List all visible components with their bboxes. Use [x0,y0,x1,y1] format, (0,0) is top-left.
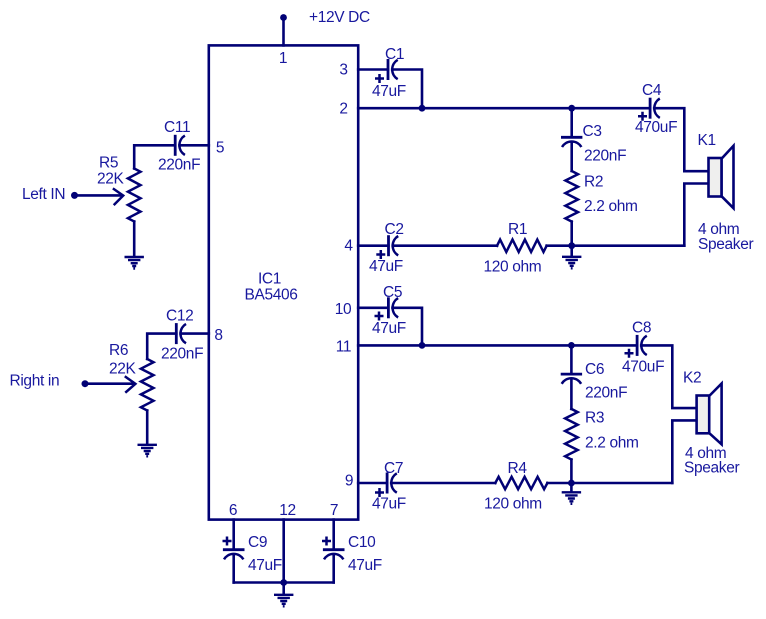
svg-text:11: 11 [336,339,351,356]
svg-text:120 ohm: 120 ohm [484,496,542,513]
svg-text:12: 12 [279,502,296,519]
svg-text:47uF: 47uF [372,320,406,337]
svg-text:IC1: IC1 [258,271,281,288]
svg-text:R5: R5 [99,155,118,172]
svg-text:2.2 ohm: 2.2 ohm [584,198,638,215]
svg-text:8: 8 [214,327,222,344]
svg-text:47uF: 47uF [248,557,282,574]
svg-text:C3: C3 [583,123,602,140]
svg-text:C6: C6 [585,361,604,378]
svg-text:C10: C10 [348,534,376,551]
svg-text:120 ohm: 120 ohm [484,259,542,276]
svg-text:+12V DC: +12V DC [309,9,370,26]
svg-text:220nF: 220nF [584,148,626,165]
svg-text:47uF: 47uF [372,83,406,100]
svg-text:R2: R2 [584,174,603,191]
svg-text:5: 5 [216,140,224,157]
svg-text:C12: C12 [166,308,193,325]
svg-text:470uF: 470uF [622,359,664,376]
svg-text:C2: C2 [385,221,404,238]
svg-text:K1: K1 [698,132,716,149]
svg-text:C5: C5 [383,284,402,301]
svg-text:7: 7 [330,502,338,519]
svg-text:4: 4 [344,238,353,255]
svg-text:R1: R1 [508,221,527,238]
svg-text:R3: R3 [585,410,604,427]
svg-text:220nF: 220nF [585,385,627,402]
svg-text:C9: C9 [248,534,267,551]
svg-text:R6: R6 [109,342,128,359]
svg-text:Left IN: Left IN [22,186,65,203]
svg-text:C8: C8 [632,320,651,337]
svg-text:22K: 22K [109,361,137,378]
svg-text:Right in: Right in [10,373,60,390]
svg-text:47uF: 47uF [348,557,382,574]
svg-text:470uF: 470uF [635,119,677,136]
svg-text:Speaker: Speaker [698,236,753,253]
svg-text:2: 2 [339,101,347,118]
svg-text:47uF: 47uF [372,496,406,513]
svg-text:K2: K2 [683,370,701,387]
svg-text:C4: C4 [642,82,662,99]
svg-text:6: 6 [229,502,237,519]
svg-text:BA5406: BA5406 [244,287,297,304]
svg-text:220nF: 220nF [161,346,203,363]
svg-text:47uF: 47uF [369,258,403,275]
svg-text:9: 9 [345,473,353,490]
svg-text:22K: 22K [97,171,125,188]
svg-text:10: 10 [335,301,352,318]
svg-text:220nF: 220nF [158,157,200,174]
svg-text:C7: C7 [384,460,403,477]
svg-text:R4: R4 [508,460,528,477]
svg-text:C1: C1 [385,46,404,63]
svg-text:2.2 ohm: 2.2 ohm [585,435,639,452]
svg-text:Speaker: Speaker [684,460,739,477]
svg-text:C11: C11 [164,119,190,136]
svg-text:3: 3 [339,62,347,79]
svg-text:1: 1 [279,50,287,67]
